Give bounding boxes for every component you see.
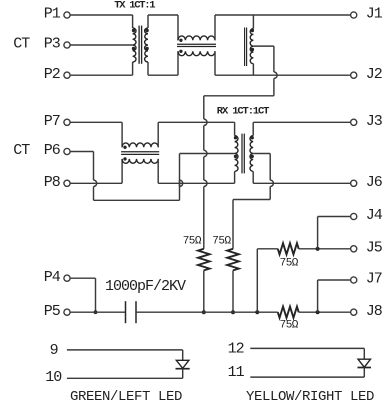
terminal P3 [64,42,70,48]
wire T1 secondary top to choke L1 [148,15,178,40]
wire pin 9 to LED D1 [67,350,183,360]
svg-text:P2: P2 [44,66,60,83]
label pin 9 [50,342,58,359]
label RX 1CT:1CT [217,105,269,117]
transformer T1 secondary winding [145,28,148,62]
resistor R3 [278,243,299,254]
transformer T2 phase dots [251,29,254,51]
choke L1 top phase dot [179,39,182,42]
wire RX secondary top to J3 [253,122,350,135]
choke L1 bottom phase dot [179,50,182,53]
terminal P5 [64,309,70,315]
transformer RX secondary winding [250,136,253,172]
label 75Ω R2 [212,235,231,247]
wire P6 around to RX transformer center tap [70,152,235,201]
svg-text:75Ω: 75Ω [280,319,299,331]
svg-text:75Ω: 75Ω [183,235,202,247]
terminal J4 [351,213,357,219]
wire P3 to T1 center tap [70,44,133,46]
label CT 2 [13,142,30,159]
label pin 10 [45,369,62,386]
terminal J1 [351,12,357,18]
label CT [13,36,30,53]
terminal P8 [64,180,70,186]
label P4 [44,269,61,286]
svg-text:P1: P1 [44,6,61,23]
wire rail to resistor R4 [257,311,278,313]
choke L2 bottom winding [122,159,158,163]
label J3 [366,113,383,130]
choke L1 top winding [178,36,215,40]
terminal P4 [64,275,70,281]
choke L2 top winding [122,143,158,147]
resistor R1 [198,249,210,271]
label P5 [44,303,61,320]
terminal P6 [64,148,70,154]
svg-text:P3: P3 [44,36,61,53]
label J5 [366,240,383,257]
svg-text:P5: P5 [44,303,61,320]
transformer T2 core [245,28,247,67]
choke L2 bottom phase dot [123,157,126,160]
label P3 [44,36,61,53]
LED D1 green/left [176,360,190,368]
svg-text:GREEN/LEFT LED: GREEN/LEFT LED [70,389,182,405]
junction R1-rail [202,310,206,314]
junction P4-rail [94,310,98,314]
svg-text:10: 10 [45,369,62,386]
label J4 [366,207,383,224]
terminal P2 [64,72,70,78]
label pin 12 [228,341,244,358]
capacitor C1 [126,301,137,323]
wire LED D2 to pin 11 [250,368,364,378]
label P1 [44,6,61,23]
svg-text:J5: J5 [366,240,383,257]
svg-text:75Ω: 75Ω [212,235,231,247]
wire pin 12 to LED D2 [250,348,364,359]
choke L1 bottom winding [178,51,215,55]
transformer RX primary winding [235,136,238,172]
svg-text:1000pF/2KV: 1000pF/2KV [105,278,186,295]
svg-text:J7: J7 [366,271,382,288]
terminal P7 [64,119,70,125]
wire choke L1 bottom to J2 rail [215,51,351,75]
label GREEN/LEFT LED [70,389,182,405]
terminal J6 [351,180,357,186]
transformer T1 core [139,26,142,64]
choke L1 core [177,44,216,46]
wire R4 to J8 [299,311,351,313]
label J2 [366,66,382,83]
svg-text:11: 11 [228,364,245,381]
wire RX secondary bottom to J6 [253,171,350,183]
resistor R2 [227,249,239,271]
transformer RX primary phase dots [234,136,237,158]
svg-text:P4: P4 [44,269,61,286]
wire P2 to T1 primary bottom [70,62,133,75]
svg-text:J3: J3 [366,113,383,130]
transformer RX secondary phase dots [251,136,254,158]
choke L2 top phase dot [123,146,126,149]
wire LED D1 to pin 10 [67,369,183,379]
label J1 [366,6,383,23]
label 75Ω R1 [183,235,202,247]
terminal J2 [351,72,357,78]
wire choke L2 bottom to RX primary bottom [158,159,234,183]
choke L2 core [121,152,159,155]
junction R2-rail [231,310,235,314]
label P2 [44,66,60,83]
wire choke L1 top to J1 rail [215,15,351,40]
wire J1 rail tap to T2 winding top [252,15,254,29]
junction J4/J5 [316,247,320,251]
terminal J8 [351,309,357,315]
label J7 [366,271,382,288]
wire J7 branch [318,280,351,312]
junction J7/J8 [316,310,320,314]
label P8 [44,174,61,191]
svg-text:P8: P8 [44,174,61,191]
label 1000pF/2KV [105,278,186,295]
LED D2 yellow/right [358,359,372,367]
svg-text:J4: J4 [366,207,383,224]
wire choke L2 top to RX primary top [158,122,234,147]
wire P5 to capacitor [70,311,125,313]
transformer T1 primary winding [133,28,136,62]
label P7 [44,113,60,130]
transformer T2 winding [250,29,253,64]
label J8 [366,303,383,320]
wire P7 to choke L2 top [70,122,122,147]
svg-text:J2: J2 [366,66,382,83]
junction rail-J45 branch [255,310,259,314]
svg-text:J1: J1 [366,6,383,23]
svg-text:CT: CT [13,36,30,53]
svg-text:12: 12 [228,341,244,358]
wire R3 to J5 [299,248,351,250]
svg-text:J6: J6 [366,174,383,191]
label 75Ω R3 [280,258,299,270]
svg-text:YELLOW/RIGHT LED: YELLOW/RIGHT LED [246,389,374,405]
label pin 11 [228,364,245,381]
label P6 [44,142,61,159]
wire J45 branch up [257,249,278,312]
svg-text:TX 1CT:1: TX 1CT:1 [114,0,155,11]
transformer RX core [242,134,244,174]
wire T1 secondary bottom to choke L1 [148,51,178,75]
wire capacitor to rail junctions [136,311,257,313]
svg-text:P7: P7 [44,113,60,130]
resistor R4 [278,307,299,318]
svg-text:RX 1CT:1CT: RX 1CT:1CT [217,105,269,117]
svg-text:9: 9 [50,342,58,359]
label TX 1CT:1 [114,0,155,11]
wire J4 branch [318,217,351,249]
wire P8 to choke L2 bottom [70,159,122,183]
terminal J3 [351,119,357,125]
wire T2 center tap to resistor R1 [204,46,277,249]
label J6 [366,174,383,191]
wire P1 to T1 primary top [70,15,133,28]
wire P4 down to rail [70,278,95,312]
label YELLOW/RIGHT LED [246,389,374,405]
svg-text:75Ω: 75Ω [280,258,299,270]
transformer T1 primary phase dots [132,29,135,50]
wire R1 to rail [203,270,205,312]
svg-text:J8: J8 [366,303,383,320]
terminal P1 [64,12,70,18]
label 75Ω R4 [280,319,299,331]
svg-text:P6: P6 [44,142,61,159]
wire RX secondary center tap to resistor R2 [233,154,273,249]
wire T2 winding bottom to J2 rail [252,64,254,75]
terminal J5 [351,246,357,252]
wire R2 to rail [232,270,234,312]
terminal J7 [351,277,357,283]
svg-text:CT: CT [13,142,30,159]
transformer T1 secondary phase dots [145,29,148,50]
